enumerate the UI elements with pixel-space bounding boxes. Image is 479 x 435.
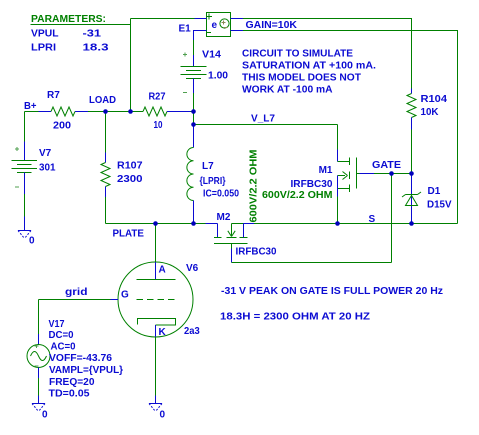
svg-text:18.3: 18.3 <box>83 43 110 54</box>
node junction R104 bottom <box>409 171 414 176</box>
svg-text:D1: D1 <box>428 186 441 197</box>
svg-text:L7: L7 <box>202 161 214 172</box>
svg-text:TD=0.05: TD=0.05 <box>49 389 90 400</box>
svg-text:M1: M1 <box>319 165 333 176</box>
wire V_L7 run <box>194 124 338 126</box>
svg-text:VOFF=-43.76: VOFF=-43.76 <box>49 353 112 364</box>
svg-text:0: 0 <box>29 236 35 247</box>
svg-text:LOAD: LOAD <box>89 95 116 106</box>
wire M1 gate link <box>357 173 360 175</box>
svg-text:IC=0.050: IC=0.050 <box>203 189 239 200</box>
node junction plate <box>153 221 158 226</box>
svg-text:K: K <box>159 327 167 338</box>
diode D1 zener <box>402 174 452 224</box>
wire S run <box>244 223 255 225</box>
wire PLATE run <box>106 223 206 225</box>
ground 0 under V17 <box>32 396 48 421</box>
svg-text:200: 200 <box>53 121 71 132</box>
inductor L7 <box>187 125 240 224</box>
node junction L7 bottom <box>191 221 196 226</box>
node junction LOAD <box>103 109 108 114</box>
svg-text:0: 0 <box>42 410 48 421</box>
svg-text:PARAMETERS:: PARAMETERS: <box>31 14 106 25</box>
wire E1 sense drop to LOAD <box>130 19 132 112</box>
svg-text:{LPRI}: {LPRI} <box>200 176 226 187</box>
svg-text:600V/2.2 OHM: 600V/2.2 OHM <box>249 150 260 223</box>
svg-text:FREQ=20: FREQ=20 <box>49 377 95 388</box>
wire E1 output minus right rail <box>243 31 458 224</box>
svg-text:GAIN=10K: GAIN=10K <box>246 20 298 31</box>
svg-text:PLATE: PLATE <box>113 229 145 240</box>
svg-text:V17: V17 <box>49 319 65 330</box>
wire grid run <box>111 299 119 301</box>
svg-text:10K: 10K <box>421 107 440 118</box>
svg-text:THIS MODEL DOES NOT: THIS MODEL DOES NOT <box>242 73 361 84</box>
transistor M1 IRFBC30 <box>262 125 357 224</box>
svg-text:VAMPL={VPUL}: VAMPL={VPUL} <box>49 365 123 376</box>
svg-text:GATE: GATE <box>372 160 401 171</box>
svg-text:B+: B+ <box>24 101 37 112</box>
svg-text:IRFBC30: IRFBC30 <box>291 179 333 190</box>
wire E1 output plus to R104 <box>243 19 412 89</box>
svg-text:V7: V7 <box>39 148 52 159</box>
svg-text:0: 0 <box>160 410 166 421</box>
svg-text:G: G <box>121 290 129 301</box>
node junction M1 source <box>335 221 340 226</box>
svg-text:R104: R104 <box>421 94 448 105</box>
svg-text:V14: V14 <box>202 50 221 61</box>
node junction V14 <box>191 109 196 114</box>
wire anode drop <box>155 224 157 263</box>
wire parameters underline riser <box>31 19 131 25</box>
svg-text:IRFBC30: IRFBC30 <box>236 247 277 258</box>
svg-text:301: 301 <box>39 163 56 174</box>
svg-text:M2: M2 <box>217 212 231 223</box>
wire tube cathode to ground <box>155 337 157 396</box>
svg-text:LPRI: LPRI <box>31 43 56 54</box>
wire V14 to V_L7 <box>193 112 195 125</box>
wire E1 sense top <box>131 18 195 20</box>
resistor R7 <box>39 90 89 132</box>
svg-text:SATURATION AT +100 mA.: SATURATION AT +100 mA. <box>242 61 376 72</box>
svg-text:D15V: D15V <box>427 200 452 211</box>
PARAMETERS block <box>31 14 109 54</box>
ground 0 under V7 <box>18 217 35 247</box>
wire B+ corner <box>25 112 39 142</box>
svg-text:V_L7: V_L7 <box>251 114 275 125</box>
transistor M2 IRFBC30 <box>214 212 277 258</box>
svg-text:S: S <box>369 214 376 225</box>
svg-text:18.3H = 2300 OHM AT 20 HZ: 18.3H = 2300 OHM AT 20 HZ <box>220 312 370 323</box>
voltage source V14 <box>181 40 229 112</box>
svg-text:2300: 2300 <box>117 174 143 185</box>
node junction D1 anode <box>409 221 414 226</box>
svg-text:V6: V6 <box>186 263 199 274</box>
svg-text:600V/2.2 OHM: 600V/2.2 OHM <box>262 190 333 201</box>
node junction sense <box>128 109 133 114</box>
op-amp U1 E1 VCVS <box>179 13 244 41</box>
resistor R107 <box>101 112 143 224</box>
resistor R104 <box>407 89 447 174</box>
svg-text:2a3: 2a3 <box>184 326 200 337</box>
vacuum tube V6 <box>111 262 201 338</box>
voltage source V7 <box>12 142 56 217</box>
svg-text:DC=0: DC=0 <box>49 330 74 341</box>
ground 0 under tube <box>149 396 166 421</box>
svg-text:grid: grid <box>65 287 88 298</box>
wire main bus <box>88 111 143 113</box>
resistor R27 <box>143 92 194 132</box>
svg-text:-31 V PEAK ON GATE IS FULL POW: -31 V PEAK ON GATE IS FULL POWER 20 Hz <box>221 286 443 297</box>
svg-text:e: e <box>212 20 218 31</box>
svg-text:R107: R107 <box>117 161 143 172</box>
wire M2 gate run <box>231 249 233 263</box>
svg-text:WORK AT -100 mA: WORK AT -100 mA <box>242 85 333 96</box>
svg-text:10: 10 <box>154 120 163 131</box>
node junction V_L7 <box>191 122 196 127</box>
svg-text:AC=0: AC=0 <box>51 342 76 353</box>
svg-text:-31: -31 <box>83 29 102 40</box>
node junction gate <box>389 171 394 176</box>
note circuit text <box>242 49 376 96</box>
voltage source V17 <box>27 319 123 400</box>
svg-text:VPUL: VPUL <box>31 29 59 40</box>
svg-text:1.00: 1.00 <box>208 71 228 82</box>
svg-text:CIRCUIT TO SIMULATE: CIRCUIT TO SIMULATE <box>242 49 353 60</box>
svg-text:R7: R7 <box>47 90 60 101</box>
svg-text:A: A <box>159 265 166 276</box>
svg-text:E1: E1 <box>179 24 192 35</box>
svg-text:R27: R27 <box>149 92 166 103</box>
